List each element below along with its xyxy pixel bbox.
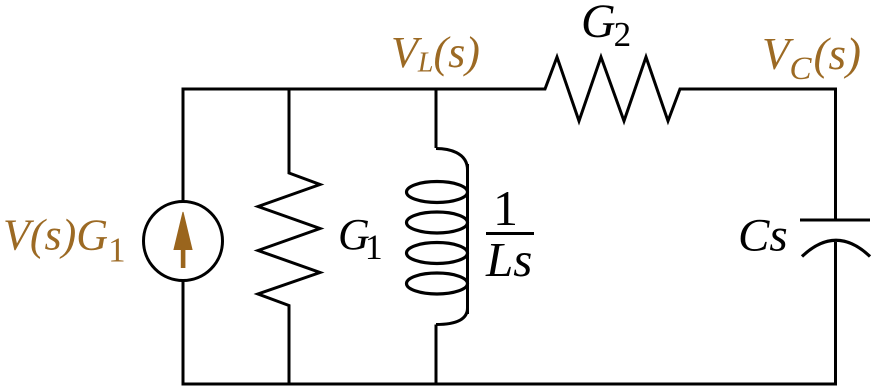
svg-text:VC(s): VC(s) bbox=[762, 29, 861, 87]
svg-text:Ls: Ls bbox=[485, 232, 532, 287]
svg-text:VL(s): VL(s) bbox=[391, 28, 480, 79]
svg-text:1: 1 bbox=[493, 180, 518, 236]
svg-text:G1: G1 bbox=[338, 210, 383, 267]
svg-text:V(s)G1: V(s)G1 bbox=[3, 211, 126, 270]
svg-text:G2: G2 bbox=[581, 0, 631, 54]
svg-text:Cs: Cs bbox=[738, 210, 788, 262]
